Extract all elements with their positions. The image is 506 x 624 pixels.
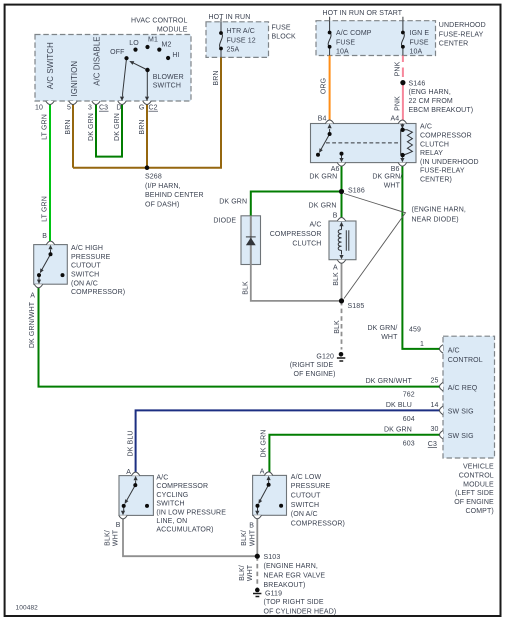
svg-text:ACCUMULATOR): ACCUMULATOR): [156, 527, 213, 534]
svg-text:(LEFT SIDE: (LEFT SIDE: [455, 490, 494, 497]
svg-text:UNDERHOOD: UNDERHOOD: [439, 22, 486, 29]
svg-text:(TOP RIGHT SIDE: (TOP RIGHT SIDE: [264, 599, 324, 606]
svg-text:B4: B4: [318, 116, 327, 123]
svg-text:A/C: A/C: [420, 124, 432, 131]
svg-text:CUTOUT: CUTOUT: [291, 493, 321, 500]
svg-text:604: 604: [403, 416, 415, 423]
svg-text:NEAR EGR VALVE: NEAR EGR VALVE: [264, 573, 326, 580]
svg-text:A/C DISABLE: A/C DISABLE: [93, 36, 102, 85]
svg-text:DK BLU: DK BLU: [127, 430, 134, 456]
svg-text:WHT: WHT: [384, 182, 401, 189]
svg-text:A4: A4: [390, 116, 399, 123]
svg-text:10A: 10A: [410, 48, 423, 55]
svg-text:DK GRN: DK GRN: [114, 113, 121, 141]
svg-text:DK GRN/: DK GRN/: [367, 325, 397, 332]
svg-text:OF ENGINE: OF ENGINE: [454, 499, 494, 506]
svg-text:S103: S103: [264, 554, 281, 561]
svg-text:CLUTCH: CLUTCH: [292, 240, 321, 247]
svg-text:S146: S146: [409, 80, 426, 87]
svg-text:DK GRN/: DK GRN/: [372, 174, 402, 181]
svg-text:762: 762: [403, 391, 415, 398]
svg-text:A: A: [30, 292, 35, 299]
svg-text:A: A: [126, 469, 131, 476]
svg-text:WHT: WHT: [247, 564, 254, 581]
svg-text:HI: HI: [172, 52, 179, 59]
svg-text:1: 1: [420, 341, 424, 348]
svg-text:ORG: ORG: [320, 78, 327, 94]
svg-text:DK GRN: DK GRN: [309, 174, 337, 181]
svg-text:25: 25: [430, 378, 438, 385]
svg-text:B: B: [42, 233, 47, 240]
svg-text:(ON A/C: (ON A/C: [71, 280, 98, 287]
svg-text:FUSE-RELAY: FUSE-RELAY: [420, 168, 465, 175]
svg-text:VEHICLE: VEHICLE: [463, 463, 494, 470]
svg-text:A/C: A/C: [309, 221, 321, 228]
svg-text:COMPRESSOR): COMPRESSOR): [291, 520, 345, 527]
svg-text:LT GRN: LT GRN: [42, 114, 49, 140]
svg-text:BLOCK: BLOCK: [272, 34, 297, 41]
svg-text:M2: M2: [162, 42, 172, 49]
svg-text:BLK: BLK: [333, 272, 340, 286]
svg-text:(IN UNDERHOOD: (IN UNDERHOOD: [420, 159, 479, 166]
svg-text:A/C SWITCH: A/C SWITCH: [46, 42, 55, 89]
svg-text:S268: S268: [145, 174, 162, 181]
svg-text:BRN: BRN: [213, 70, 220, 85]
svg-text:WHT: WHT: [381, 334, 398, 341]
svg-text:3: 3: [88, 105, 92, 112]
svg-text:100482: 100482: [16, 605, 39, 612]
svg-text:10: 10: [35, 105, 43, 112]
svg-text:IGNITION: IGNITION: [70, 61, 79, 97]
svg-text:COMPRESSOR): COMPRESSOR): [71, 289, 125, 296]
svg-text:OF CYLINDER HEAD): OF CYLINDER HEAD): [264, 608, 337, 615]
svg-text:MODULE: MODULE: [157, 26, 188, 33]
svg-text:603: 603: [403, 441, 415, 448]
svg-text:459: 459: [409, 327, 421, 334]
svg-text:B: B: [333, 213, 338, 220]
svg-text:OF ENGINE): OF ENGINE): [294, 371, 336, 378]
svg-text:FUSE 12: FUSE 12: [227, 37, 256, 44]
svg-text:A/C LOW: A/C LOW: [291, 474, 322, 481]
svg-text:DK GRN: DK GRN: [384, 427, 412, 434]
svg-text:D: D: [116, 105, 121, 112]
svg-text:OF DASH): OF DASH): [145, 201, 179, 208]
svg-text:30: 30: [430, 426, 438, 433]
svg-text:A/C: A/C: [156, 475, 168, 482]
svg-text:SWITCH: SWITCH: [71, 272, 99, 279]
svg-text:HVAC CONTROL: HVAC CONTROL: [131, 18, 188, 25]
svg-text:FUSE: FUSE: [410, 39, 429, 46]
svg-text:IGN E: IGN E: [410, 30, 430, 37]
svg-text:PRESSURE: PRESSURE: [291, 483, 331, 490]
svg-text:BRN: BRN: [65, 119, 72, 134]
svg-text:FUSE: FUSE: [336, 39, 355, 46]
svg-text:DK BLU: DK BLU: [386, 402, 412, 409]
svg-text:HTR A/C: HTR A/C: [227, 28, 255, 35]
svg-text:OFF: OFF: [110, 49, 124, 56]
svg-text:SWITCH: SWITCH: [291, 502, 319, 509]
svg-text:(ON A/C: (ON A/C: [291, 511, 318, 518]
svg-text:FUSE-RELAY: FUSE-RELAY: [439, 31, 484, 38]
svg-text:C3: C3: [428, 441, 437, 448]
svg-text:(RIGHT SIDE: (RIGHT SIDE: [290, 362, 334, 369]
svg-text:LINE, ON: LINE, ON: [156, 518, 187, 525]
svg-text:NEAR DIODE): NEAR DIODE): [412, 216, 459, 223]
svg-text:BLK/: BLK/: [241, 530, 248, 546]
svg-text:COMPRESSOR: COMPRESSOR: [420, 133, 472, 140]
svg-text:A/C COMP: A/C COMP: [336, 30, 372, 37]
svg-text:WHT: WHT: [113, 529, 120, 546]
svg-text:M1: M1: [148, 37, 158, 44]
svg-text:C3: C3: [99, 105, 108, 112]
svg-text:DK GRN: DK GRN: [219, 199, 247, 206]
svg-text:BLK: BLK: [242, 281, 249, 295]
svg-text:S185: S185: [348, 303, 365, 310]
svg-text:BLOWER: BLOWER: [153, 74, 184, 81]
svg-text:PNK: PNK: [394, 61, 401, 76]
svg-text:LT GRN: LT GRN: [42, 196, 49, 222]
svg-text:B6: B6: [391, 166, 400, 173]
svg-text:HOT IN RUN OR START: HOT IN RUN OR START: [323, 10, 403, 17]
svg-text:A: A: [333, 264, 338, 271]
svg-text:(ENGINE HARN,: (ENGINE HARN,: [412, 207, 466, 214]
svg-text:FUSE: FUSE: [272, 24, 291, 31]
svg-text:PRESSURE: PRESSURE: [71, 254, 111, 261]
svg-text:A: A: [260, 469, 265, 476]
svg-text:BLK: BLK: [334, 320, 341, 334]
svg-text:CENTER: CENTER: [439, 40, 469, 47]
svg-text:BREAKOUT): BREAKOUT): [264, 582, 306, 589]
svg-text:A6: A6: [331, 166, 340, 173]
svg-text:A/C: A/C: [448, 348, 460, 355]
svg-text:MODULE: MODULE: [463, 481, 494, 488]
svg-text:DK GRN/WHT: DK GRN/WHT: [366, 378, 413, 385]
svg-text:14: 14: [430, 402, 438, 409]
svg-text:(ENGINE HARN,: (ENGINE HARN,: [264, 563, 318, 570]
svg-text:HOT IN RUN: HOT IN RUN: [209, 14, 251, 21]
svg-text:CUTOUT: CUTOUT: [71, 263, 101, 270]
svg-text:EBCM BREAKOUT): EBCM BREAKOUT): [409, 107, 474, 114]
svg-text:LO: LO: [129, 40, 139, 47]
svg-text:PNK: PNK: [394, 96, 401, 111]
svg-text:A/C HIGH: A/C HIGH: [71, 245, 103, 252]
svg-text:(I/P HARN,: (I/P HARN,: [145, 183, 181, 190]
svg-text:COMPT): COMPT): [465, 508, 493, 515]
svg-text:B: B: [249, 523, 254, 530]
svg-text:DK GRN: DK GRN: [260, 430, 267, 458]
svg-text:C2: C2: [149, 105, 158, 112]
svg-text:(ENG HARN,: (ENG HARN,: [409, 89, 451, 96]
svg-text:SW SIG: SW SIG: [448, 433, 474, 440]
svg-text:S186: S186: [348, 188, 365, 195]
svg-text:DK GRN: DK GRN: [309, 203, 337, 210]
svg-text:CONTROL: CONTROL: [459, 473, 494, 480]
svg-text:DK GRN: DK GRN: [88, 113, 95, 141]
svg-text:COMPRESSOR: COMPRESSOR: [156, 483, 208, 490]
svg-text:BRN: BRN: [139, 119, 146, 134]
svg-text:DK GRN/WHT: DK GRN/WHT: [29, 301, 36, 348]
svg-text:WHT: WHT: [249, 529, 256, 546]
svg-text:BLK/: BLK/: [239, 565, 246, 581]
svg-text:BLK/: BLK/: [104, 530, 111, 546]
svg-text:A/C REQ: A/C REQ: [448, 385, 478, 392]
svg-text:G120: G120: [316, 353, 334, 360]
svg-text:CONTROL: CONTROL: [448, 357, 483, 364]
svg-text:5: 5: [67, 105, 71, 112]
svg-text:COMPRESSOR: COMPRESSOR: [270, 231, 322, 238]
svg-text:SW SIG: SW SIG: [448, 409, 474, 416]
svg-text:10A: 10A: [336, 48, 349, 55]
svg-text:22 CM FROM: 22 CM FROM: [409, 98, 453, 105]
svg-text:CENTER): CENTER): [420, 177, 452, 184]
svg-text:CYCLING: CYCLING: [156, 492, 188, 499]
svg-text:G119: G119: [265, 591, 282, 598]
svg-text:RELAY: RELAY: [420, 150, 443, 157]
svg-text:SWITCH: SWITCH: [153, 82, 181, 89]
svg-text:(IN LOW PRESSURE: (IN LOW PRESSURE: [156, 509, 226, 516]
svg-text:CLUTCH: CLUTCH: [420, 141, 449, 148]
svg-text:25A: 25A: [227, 47, 240, 54]
svg-text:G: G: [139, 105, 145, 112]
svg-text:B: B: [116, 522, 121, 529]
svg-text:DIODE: DIODE: [213, 217, 236, 224]
svg-text:BEHIND CENTER: BEHIND CENTER: [145, 192, 204, 199]
svg-text:SWITCH: SWITCH: [156, 501, 184, 508]
